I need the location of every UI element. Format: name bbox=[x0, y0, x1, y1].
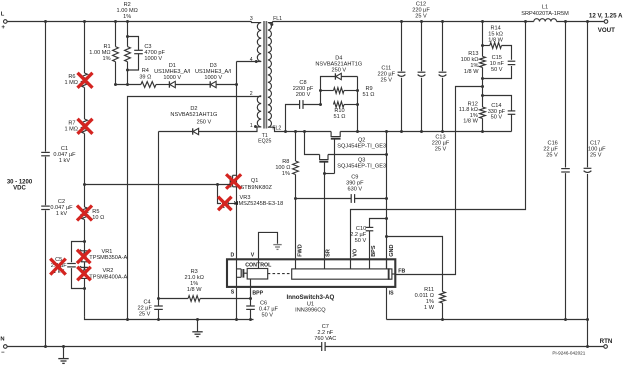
svg-text:1: 1 bbox=[250, 123, 253, 129]
wire VO sense bbox=[351, 22, 526, 260]
svg-text:BPS: BPS bbox=[371, 245, 377, 257]
zener VR2 (DNP) bbox=[80, 266, 128, 280]
capacitor C9 bbox=[296, 175, 389, 203]
IC pin BPP label bbox=[252, 290, 263, 296]
capacitor C12 bbox=[412, 1, 430, 131]
svg-text:30 - 1200: 30 - 1200 bbox=[7, 179, 33, 185]
wire FL2 rail bbox=[268, 127, 512, 131]
wire S pin to bus bbox=[235, 287, 238, 321]
capacitor C17 bbox=[584, 22, 607, 347]
DNP cross R7 bbox=[78, 119, 93, 134]
svg-text:EQ25: EQ25 bbox=[258, 139, 271, 145]
transistor Q3 bbox=[319, 155, 386, 174]
resistor R8 bbox=[275, 132, 298, 260]
svg-text:1000 V: 1000 V bbox=[204, 75, 222, 81]
svg-text:1 MΩ: 1 MΩ bbox=[64, 127, 78, 133]
svg-text:250 V: 250 V bbox=[197, 119, 212, 125]
terminal L (line input +) bbox=[1, 12, 7, 32]
IC designator U1 bbox=[287, 294, 335, 313]
svg-text:50 V: 50 V bbox=[262, 312, 274, 318]
wire primary gate rail bbox=[85, 183, 231, 186]
IC pin FB label bbox=[398, 269, 405, 275]
svg-text:SQJ454EP-TI_GE3: SQJ454EP-TI_GE3 bbox=[337, 164, 386, 170]
transformer FL1 label and polarity dot bbox=[270, 16, 282, 26]
svg-text:25 V: 25 V bbox=[415, 13, 427, 19]
inductor L1 bbox=[521, 5, 569, 22]
ground symbol input bbox=[58, 347, 68, 364]
IC pin S label bbox=[231, 289, 235, 295]
wire bottom rail bbox=[7, 345, 604, 348]
svg-text:Q2: Q2 bbox=[358, 137, 365, 143]
svg-text:V: V bbox=[251, 253, 255, 259]
svg-text:VR2: VR2 bbox=[103, 268, 114, 274]
svg-text:11.8 kΩ: 11.8 kΩ bbox=[459, 107, 478, 113]
junction dots top rail primary bbox=[44, 20, 129, 23]
svg-text:−: − bbox=[1, 350, 5, 356]
capacitor C11 bbox=[378, 22, 406, 132]
resistor R3 bbox=[159, 269, 253, 301]
svg-text:SR: SR bbox=[326, 249, 332, 257]
capacitor C8 bbox=[286, 80, 321, 132]
svg-text:TPSMB350A-A: TPSMB350A-A bbox=[89, 255, 127, 261]
IC pin IS label bbox=[389, 291, 394, 297]
resistor R2 bbox=[117, 2, 138, 85]
zener VR3 (DNP) bbox=[218, 185, 284, 208]
wire divider line bbox=[481, 22, 484, 132]
capacitor C13 bbox=[432, 22, 450, 153]
transformer T1 primary winding upper bbox=[252, 22, 262, 62]
wire FB net bbox=[395, 87, 482, 275]
svg-text:51 Ω: 51 Ω bbox=[334, 114, 346, 120]
capacitor C1 bbox=[41, 146, 76, 164]
svg-text:SRP4020TA-1R5M: SRP4020TA-1R5M bbox=[521, 11, 569, 17]
svg-text:1/8 W: 1/8 W bbox=[187, 287, 202, 293]
wire primary bus bbox=[86, 318, 254, 321]
IC pin VO label bbox=[352, 248, 358, 257]
diode D1 bbox=[154, 63, 191, 88]
svg-text:25 V: 25 V bbox=[435, 147, 447, 153]
diode D3 bbox=[195, 63, 232, 88]
transformer pin 2 bbox=[250, 91, 253, 97]
svg-text:1000 V: 1000 V bbox=[144, 56, 162, 62]
capacitor C16 bbox=[543, 22, 569, 320]
svg-text:1/8 W: 1/8 W bbox=[463, 119, 478, 125]
svg-text:R9: R9 bbox=[366, 86, 373, 92]
junction dots top rail secondary bbox=[400, 20, 589, 23]
svg-text:VR3: VR3 bbox=[240, 195, 251, 201]
svg-text:TPSMB400A-A: TPSMB400A-A bbox=[89, 274, 127, 280]
diode D2 bbox=[159, 106, 262, 135]
DNP cross VR3 bbox=[218, 197, 232, 211]
svg-text:RTN: RTN bbox=[600, 338, 613, 345]
wire C5 branch bbox=[72, 242, 85, 289]
svg-text:1%: 1% bbox=[123, 14, 131, 20]
terminal N (neutral -) bbox=[0, 337, 7, 356]
svg-text:Q3: Q3 bbox=[358, 157, 365, 163]
zener VR1 (DNP) bbox=[80, 249, 128, 262]
svg-text:Q1: Q1 bbox=[251, 178, 258, 184]
svg-text:50 V: 50 V bbox=[491, 114, 503, 120]
svg-text:1000 V: 1000 V bbox=[163, 75, 181, 81]
svg-text:C10: C10 bbox=[356, 226, 366, 232]
DNP cross VR1 bbox=[77, 250, 91, 264]
svg-text:+: + bbox=[1, 24, 5, 31]
svg-text:NSVBA521AHT1G: NSVBA521AHT1G bbox=[170, 112, 217, 118]
transformer T1 primary winding lower bbox=[257, 96, 261, 127]
resistor R10 bbox=[319, 77, 359, 132]
diode D4 bbox=[315, 55, 362, 104]
wire D2 to C4/R3 node bbox=[157, 132, 160, 301]
wire Q3 branch bbox=[305, 132, 389, 157]
svg-text:1/8 W: 1/8 W bbox=[464, 69, 479, 75]
wire drain line (pin4 to D pin) bbox=[235, 62, 238, 260]
capacitor C5 (DNP) bbox=[51, 257, 76, 275]
svg-text:50 V: 50 V bbox=[491, 67, 503, 73]
resistor R7 (DNP) bbox=[64, 119, 87, 134]
svg-text:VO: VO bbox=[352, 248, 358, 257]
svg-text:39 Ω: 39 Ω bbox=[139, 74, 151, 80]
svg-text:S: S bbox=[231, 289, 235, 295]
svg-text:1 W: 1 W bbox=[424, 305, 435, 311]
label 30 - 1200 VDC bbox=[7, 179, 33, 191]
wire input capacitor branch bbox=[45, 22, 47, 347]
IC pin stubs top bbox=[259, 259, 387, 269]
resistor R1 bbox=[89, 22, 118, 85]
svg-text:FB: FB bbox=[398, 269, 405, 275]
IC internal primary MOSFET bbox=[237, 259, 248, 287]
capacitor C4 bbox=[137, 299, 162, 320]
IC pin D label bbox=[231, 253, 235, 259]
transformer T1 designator bbox=[258, 133, 271, 145]
terminal RTN bbox=[600, 338, 613, 348]
IC secondary block bbox=[292, 269, 396, 279]
IC pin GND label bbox=[389, 245, 395, 257]
svg-text:R4: R4 bbox=[142, 68, 149, 74]
IC U1 outline bbox=[227, 259, 395, 287]
svg-text:InnoSwitch3-AQ: InnoSwitch3-AQ bbox=[287, 294, 335, 301]
wire top rail primary bbox=[7, 21, 251, 23]
svg-text:BPP: BPP bbox=[252, 290, 263, 296]
svg-text:25 V: 25 V bbox=[590, 153, 602, 159]
transformer T1 secondary winding bbox=[268, 22, 273, 128]
resistor R5 (DNP) bbox=[82, 207, 105, 221]
svg-text:SQJ454EP-TI_GE3: SQJ454EP-TI_GE3 bbox=[337, 144, 386, 150]
svg-text:R10: R10 bbox=[334, 108, 344, 114]
transformer FL2 label bbox=[272, 126, 281, 132]
svg-text:25 V: 25 V bbox=[546, 153, 558, 159]
resistor R11 bbox=[387, 237, 446, 320]
svg-text:INN3996CQ: INN3996CQ bbox=[295, 307, 326, 313]
DNP cross R5 bbox=[77, 206, 92, 221]
svg-text:PI-9246-042021: PI-9246-042021 bbox=[552, 351, 585, 356]
svg-text:GND: GND bbox=[389, 245, 395, 257]
svg-text:50 V: 50 V bbox=[355, 238, 367, 244]
transistor Q1 (DNP) bbox=[231, 175, 273, 191]
wire secondary ground line bbox=[385, 132, 388, 269]
capacitor C6 bbox=[246, 299, 278, 320]
wire pin2 to primary bus bbox=[126, 97, 261, 322]
svg-text:L: L bbox=[1, 12, 5, 18]
svg-text:25 V: 25 V bbox=[139, 311, 151, 317]
svg-text:STB9NK80Z: STB9NK80Z bbox=[240, 185, 272, 191]
wire top rail secondary bbox=[273, 21, 604, 23]
transformer pin 4 and polarity dot bbox=[250, 57, 258, 63]
wire pin4 to clamp node bbox=[237, 61, 262, 63]
svg-text:2: 2 bbox=[250, 91, 253, 97]
IC pin SR label bbox=[326, 249, 332, 257]
resistor R13 bbox=[461, 51, 486, 75]
svg-text:1 kV: 1 kV bbox=[59, 158, 70, 164]
capacitor C3 bbox=[128, 37, 166, 71]
svg-text:FWD: FWD bbox=[297, 244, 303, 257]
svg-text:D: D bbox=[231, 253, 235, 259]
wire IS pin to RTN bus bbox=[387, 287, 590, 321]
transformer pin 1 and polarity dot bbox=[250, 123, 257, 129]
svg-text:1/8 W: 1/8 W bbox=[488, 38, 503, 44]
svg-text:760 VAC: 760 VAC bbox=[314, 336, 336, 342]
svg-text:L1: L1 bbox=[542, 5, 548, 11]
svg-text:VDC: VDC bbox=[13, 186, 26, 192]
IC pin FWD label bbox=[297, 244, 303, 257]
wire BPP pin bbox=[250, 279, 252, 299]
svg-text:25 V: 25 V bbox=[381, 78, 393, 84]
resistor R14 bbox=[483, 26, 512, 60]
ground symbol V pin bbox=[259, 232, 282, 259]
svg-text:630 V: 630 V bbox=[347, 187, 362, 193]
IC pin V label bbox=[251, 253, 255, 259]
svg-text:1%: 1% bbox=[103, 56, 111, 62]
label PI-9246-042021 bbox=[552, 351, 585, 356]
resistor R4 bbox=[139, 68, 156, 87]
capacitor C2 bbox=[41, 199, 73, 217]
junction dots FL2 rail bbox=[284, 130, 484, 133]
IC pin BPS label bbox=[371, 245, 377, 257]
svg-text:200 V: 200 V bbox=[296, 92, 311, 98]
capacitor C14 bbox=[483, 96, 516, 132]
DNP cross VR2 bbox=[77, 267, 91, 281]
resistor R9 bbox=[319, 86, 374, 98]
wire SR gate tie bbox=[323, 172, 335, 259]
svg-text:N: N bbox=[0, 337, 4, 343]
svg-text:1 kV: 1 kV bbox=[56, 211, 67, 217]
svg-text:250 V: 250 V bbox=[331, 67, 346, 73]
svg-text:12 V, 1.25 A: 12 V, 1.25 A bbox=[589, 12, 623, 19]
capacitor C7 bbox=[314, 324, 336, 351]
DNP cross R6 bbox=[78, 73, 93, 88]
wire clamp bottom bbox=[114, 83, 238, 86]
svg-text:3: 3 bbox=[250, 16, 253, 22]
ground symbol primary bus bbox=[192, 320, 202, 337]
transistor Q2 bbox=[331, 132, 386, 174]
capacitor C10 bbox=[350, 219, 386, 260]
transformer T1 core bbox=[264, 21, 266, 129]
IC internal dashed link bbox=[268, 273, 292, 275]
svg-text:10 Ω: 10 Ω bbox=[92, 215, 104, 221]
capacitor C15 bbox=[483, 55, 516, 79]
svg-text:VOUT: VOUT bbox=[598, 27, 615, 34]
svg-text:FL2: FL2 bbox=[272, 126, 281, 132]
resistor R6 (DNP) bbox=[64, 73, 87, 88]
resistor R12 bbox=[459, 101, 486, 124]
DNP cross Q1 bbox=[226, 174, 241, 189]
svg-text:1%: 1% bbox=[282, 171, 290, 177]
IC CONTROL block bbox=[245, 263, 272, 279]
svg-text:51 Ω: 51 Ω bbox=[363, 92, 375, 98]
svg-text:MMSZ5245B-E3-18: MMSZ5245B-E3-18 bbox=[234, 201, 283, 207]
svg-text:1 MΩ: 1 MΩ bbox=[64, 80, 78, 86]
terminal VOUT bbox=[589, 12, 623, 33]
DNP cross C5 bbox=[50, 259, 66, 275]
svg-text:IS: IS bbox=[389, 291, 394, 297]
svg-text:VR1: VR1 bbox=[102, 249, 113, 255]
wire R6-R7-R5 chain bbox=[83, 22, 86, 320]
transformer pin 3 bbox=[250, 16, 253, 22]
